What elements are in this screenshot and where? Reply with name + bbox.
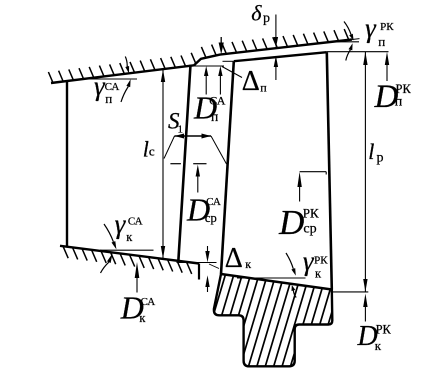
svg-text:к: к <box>315 266 322 280</box>
dimension arrow D_p RK <box>386 64 388 81</box>
dimension delta_r tip clearance <box>275 15 277 39</box>
svg-text:D: D <box>278 203 304 242</box>
stator tip reference line <box>191 65 224 67</box>
angle gamma_p CA annotation <box>84 78 137 80</box>
svg-text:Δ: Δ <box>242 66 260 97</box>
svg-text:ср: ср <box>205 211 217 225</box>
svg-text:1: 1 <box>178 124 184 136</box>
dimension arrow D_k CA <box>136 277 138 293</box>
angle gamma_p RK annotation <box>336 41 359 43</box>
angle gamma_k CA annotation <box>100 249 154 251</box>
svg-text:п: п <box>260 80 267 94</box>
dimension S1 <box>175 135 212 137</box>
svg-text:СА: СА <box>206 196 221 208</box>
svg-text:р: р <box>377 151 384 166</box>
mid-span tick RK <box>300 171 327 173</box>
leader to Delta_p label <box>222 67 242 78</box>
svg-text:с: с <box>149 144 155 159</box>
svg-text:РК: РК <box>376 323 392 337</box>
rotor blade leading edge (right slanted line) <box>221 61 234 274</box>
dimension Delta_k <box>177 262 217 264</box>
stator blade edge (left slanted line) <box>178 65 190 262</box>
svg-text:к: к <box>126 230 133 244</box>
mid-span line CA <box>170 163 181 165</box>
stator hub platform end step <box>198 264 200 280</box>
svg-text:р: р <box>263 11 270 26</box>
svg-text:к: к <box>139 311 146 325</box>
svg-text:Δ: Δ <box>225 243 243 274</box>
svg-text:РК: РК <box>380 21 394 33</box>
svg-text:СА: СА <box>128 216 143 228</box>
rotor blade trailing edge <box>327 52 332 289</box>
rotor tip extension line <box>223 60 234 62</box>
svg-text:γ: γ <box>303 246 315 276</box>
svg-text:γ: γ <box>115 209 127 239</box>
svg-text:п: п <box>395 94 403 109</box>
svg-text:ср: ср <box>303 221 316 236</box>
svg-text:п: п <box>378 34 385 49</box>
svg-text:γ: γ <box>365 13 377 43</box>
dimension Delta_p arrows <box>219 74 221 95</box>
svg-text:п: п <box>211 109 218 124</box>
hub exit reference line <box>333 291 368 293</box>
stator hub platform line <box>60 246 199 264</box>
outer casing wall over stator and rotor <box>51 40 352 84</box>
outer casing hatching <box>48 29 348 83</box>
svg-text:п: п <box>105 91 112 106</box>
dimension l_p line <box>364 52 366 292</box>
dimension arrow D_p CA <box>205 74 207 95</box>
dimension l_c line <box>162 69 164 258</box>
svg-text:СА: СА <box>209 94 225 108</box>
peripheral diameter reference line RK <box>327 51 389 53</box>
svg-text:РК: РК <box>303 205 319 220</box>
stator inlet edge <box>66 81 68 247</box>
svg-text:РК: РК <box>314 254 328 266</box>
dimension arrow D_k RK <box>364 306 366 322</box>
rotor blade tip line <box>234 52 327 61</box>
svg-text:СА: СА <box>141 296 156 308</box>
svg-text:к: к <box>245 257 251 271</box>
dimension arrow D_sr RK <box>299 186 301 202</box>
svg-text:l: l <box>368 139 374 164</box>
rotor hub disc (hatched) <box>188 268 379 372</box>
svg-text:к: к <box>375 338 382 353</box>
svg-text:δ: δ <box>251 1 262 26</box>
stator hub line hatching <box>63 246 192 274</box>
dimension arrow D_sr CA <box>197 175 199 193</box>
angle gamma_k RK annotation <box>237 277 306 279</box>
